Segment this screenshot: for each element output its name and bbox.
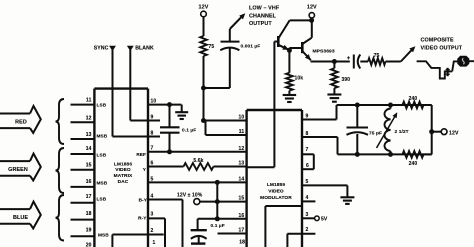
brace GREEN group — [56, 148, 65, 193]
svg-text:COMPOSITE: COMPOSITE — [421, 38, 455, 44]
wire osc down — [203, 88, 205, 121]
label LOW-VHF CHANNEL OUTPUT — [249, 6, 280, 28]
icon video waveform — [417, 57, 474, 79]
U1 label LM1886 — [114, 161, 133, 185]
svg-text:10: 10 — [151, 98, 157, 104]
svg-text:GREEN: GREEN — [8, 167, 28, 173]
U2 pin 10 label — [239, 115, 245, 121]
wire arrow composite out — [401, 46, 416, 61]
svg-text:LSB: LSB — [97, 153, 107, 158]
svg-text:R-Y: R-Y — [138, 215, 147, 220]
ground pin 5 — [340, 197, 354, 204]
svg-text:12V: 12V — [307, 5, 317, 11]
node junction 390 — [332, 59, 337, 64]
svg-text:VIDEO: VIDEO — [268, 189, 284, 195]
svg-text:3: 3 — [306, 212, 309, 218]
svg-text:5: 5 — [306, 179, 309, 185]
svg-text:MSB: MSB — [97, 133, 108, 138]
op-amp U1 LM1886 box — [94, 89, 148, 247]
wire 240bot right — [424, 153, 432, 155]
wire pin5 down — [346, 185, 348, 196]
ground C4 — [191, 242, 205, 244]
svg-text:1: 1 — [153, 240, 156, 246]
brace BLUE group — [56, 195, 65, 241]
wire Q2 emitter output — [311, 61, 350, 63]
svg-text:DAC: DAC — [118, 179, 129, 185]
svg-text:9: 9 — [151, 114, 154, 120]
U2 pin 12 label — [239, 146, 245, 152]
svg-text:MSB: MSB — [98, 233, 109, 238]
wire input pin 19 — [71, 227, 95, 236]
U2 pin 15 label — [239, 196, 245, 202]
node junction U2 pin10 — [201, 118, 206, 123]
svg-text:8: 8 — [306, 131, 309, 137]
svg-text:240: 240 — [409, 96, 418, 102]
U2 pin 17 label — [239, 228, 245, 234]
U2 pin 14 label — [239, 176, 245, 182]
ground pin 10 — [175, 105, 188, 119]
U1 pin labels LSB/MSB left — [97, 102, 110, 237]
svg-text:BLANK: BLANK — [135, 45, 154, 51]
svg-text:11: 11 — [86, 98, 92, 104]
capacitor C2 0.001uF — [220, 29, 260, 88]
wire U2 pin 4 stub — [302, 195, 315, 201]
svg-text:75: 75 — [209, 44, 215, 50]
svg-text:16: 16 — [86, 179, 92, 185]
wire pin 10 to ground — [148, 98, 182, 104]
resistor R4 390 — [331, 68, 350, 88]
wire pin8 down — [337, 137, 339, 154]
wire 12V vertical — [216, 182, 218, 218]
svg-text:2: 2 — [306, 227, 309, 233]
svg-text:2 1/2T: 2 1/2T — [395, 129, 409, 135]
resistor R7 240 bottom — [403, 151, 424, 167]
wire tank top — [337, 104, 432, 106]
svg-text:3: 3 — [151, 211, 154, 217]
wire junction to cap — [204, 87, 230, 89]
capacitor C4 0.1uF — [191, 219, 225, 244]
svg-text:12V: 12V — [199, 5, 209, 11]
svg-text:10: 10 — [239, 115, 245, 121]
wire U1 pin5 to U2 pin14 — [148, 176, 247, 182]
svg-text:13: 13 — [86, 132, 92, 138]
node junction pin15 — [215, 199, 220, 204]
U2 pin 11 label — [239, 129, 245, 135]
node BLANK input — [127, 45, 154, 120]
wire R-Y down — [164, 218, 166, 247]
wire to U2 pin 11 — [206, 134, 247, 136]
svg-text:OUTPUT: OUTPUT — [249, 21, 272, 27]
wire U2 pin 8 — [302, 131, 338, 137]
svg-text:LM1886: LM1886 — [114, 161, 132, 167]
input arrow RED — [0, 106, 41, 133]
wire T1 base vertical — [273, 42, 275, 111]
svg-text:12: 12 — [239, 146, 245, 152]
wire U2 pin 16 — [198, 218, 247, 220]
svg-text:B-Y: B-Y — [139, 197, 148, 202]
wire emitter to 10k — [288, 50, 290, 73]
wire pin 2 down left — [111, 235, 113, 247]
wire input pin 13 — [71, 132, 95, 139]
op-amp U2 LM1889 box — [247, 110, 302, 247]
svg-text:+: + — [347, 56, 351, 62]
svg-text:10k: 10k — [295, 76, 304, 82]
inductor L1 2 1/2T — [377, 105, 409, 154]
svg-text:75: 75 — [374, 53, 380, 59]
resistor R6 240 top — [403, 96, 424, 108]
svg-text:REF: REF — [136, 152, 146, 157]
wire input pin 18 — [71, 211, 95, 220]
U2 pin 18 label — [239, 240, 245, 246]
svg-text:BLUE: BLUE — [13, 215, 28, 221]
wire U2 pin 9 — [302, 113, 337, 119]
transistor Q1 — [274, 20, 311, 49]
node junction cap top — [355, 103, 360, 108]
wire U2 pin 17 stub — [218, 233, 247, 235]
svg-text:RED: RED — [15, 120, 27, 126]
wire U2 pin 2 interior down — [286, 234, 288, 247]
capacitor C1 0.1uF REF bypass — [160, 105, 196, 152]
resistor R1 75 — [200, 36, 214, 56]
svg-text:11: 11 — [239, 129, 245, 135]
svg-text:0.1 µF: 0.1 µF — [211, 223, 225, 229]
svg-text:LSB: LSB — [97, 197, 107, 202]
wire U2 interior down — [264, 206, 266, 247]
node 12V right terminal — [432, 129, 459, 137]
svg-text:12V ± 10%: 12V ± 10% — [177, 193, 203, 199]
svg-text:0.1 µF: 0.1 µF — [182, 128, 196, 134]
resistor R5 75 output — [368, 53, 386, 65]
ground 10k — [283, 91, 297, 102]
resistor R2 5.6k — [184, 158, 214, 170]
svg-text:20: 20 — [86, 242, 92, 247]
node junction pin7/cap — [167, 149, 172, 154]
node junction pin16 — [215, 216, 220, 221]
svg-text:7: 7 — [306, 147, 309, 153]
wire input pin 17 — [71, 194, 95, 203]
transistor Q2 MPS3693 — [289, 38, 334, 61]
svg-text:12: 12 — [86, 115, 92, 121]
wire to U2 pin 10 — [204, 120, 247, 122]
wire U2 pin 2 stub — [287, 227, 315, 234]
wire pin 2 — [112, 228, 163, 235]
svg-text:MODULATOR: MODULATOR — [260, 195, 292, 201]
capacitor C5 75pF — [347, 105, 383, 154]
wire pin 3 R-Y — [148, 211, 165, 218]
node 12V supply left — [199, 5, 209, 36]
wire input pin 15 — [71, 162, 95, 169]
svg-text:VIDEO: VIDEO — [115, 167, 131, 173]
wire B-Y down — [182, 200, 184, 247]
svg-text:SYNC: SYNC — [94, 45, 109, 51]
resistor R3 10k — [286, 73, 303, 91]
wire 75 down — [203, 56, 205, 88]
svg-text:7: 7 — [151, 146, 154, 152]
svg-text:CHANNEL: CHANNEL — [249, 13, 277, 19]
U1 pin 1 label — [153, 240, 156, 246]
node junction tank right — [429, 129, 434, 134]
wire pin 8 stub — [148, 130, 160, 136]
svg-text:13: 13 — [239, 161, 245, 167]
node junction coil top — [388, 103, 393, 108]
svg-text:VIDEO OUTPUT: VIDEO OUTPUT — [421, 46, 463, 52]
svg-text:19: 19 — [86, 227, 92, 233]
wire Y line pin6 — [148, 160, 184, 166]
wire 390 top — [333, 62, 335, 69]
svg-text:4: 4 — [306, 195, 309, 201]
svg-text:LOW – VHF: LOW – VHF — [249, 6, 280, 12]
svg-text:6: 6 — [151, 160, 154, 166]
node junction cap bottom — [355, 152, 360, 157]
svg-text:18: 18 — [239, 240, 245, 246]
svg-text:12V: 12V — [449, 130, 459, 136]
wire pin 4 B-Y — [148, 193, 183, 199]
wire pin11 tie — [205, 121, 207, 136]
svg-text:MSB: MSB — [97, 180, 108, 185]
wire input pin 11 — [71, 98, 95, 105]
svg-text:2: 2 — [151, 228, 154, 234]
svg-text:17: 17 — [86, 194, 92, 200]
svg-text:15: 15 — [86, 162, 92, 168]
svg-text:MPS3693: MPS3693 — [313, 48, 335, 54]
svg-text:14: 14 — [86, 146, 92, 152]
label COMPOSITE VIDEO OUTPUT — [421, 38, 463, 52]
wire after 75 — [386, 61, 401, 63]
svg-text:75 pF: 75 pF — [369, 130, 382, 136]
capacitor C3 electrolytic — [347, 55, 368, 69]
svg-text:8: 8 — [151, 130, 154, 136]
svg-text:5V: 5V — [321, 216, 328, 222]
svg-text:14: 14 — [239, 176, 245, 182]
node junction coil bottom — [388, 152, 393, 157]
node junction 12V collectors — [309, 18, 314, 23]
input arrow GREEN — [0, 154, 41, 181]
svg-text:18: 18 — [86, 211, 92, 217]
wire U2 pins 7-6 loop — [302, 147, 314, 169]
node 12V 10% terminal — [177, 193, 217, 205]
wire pin 9 stub — [148, 114, 160, 120]
wire tank right vertical — [431, 105, 433, 154]
U1 pin labels right names — [136, 152, 147, 221]
svg-text:0.001 µF: 0.001 µF — [241, 43, 261, 49]
wire pin9 up — [336, 105, 338, 120]
wire U2 pin 5 — [302, 179, 347, 185]
node junction pin10/cap — [167, 102, 172, 107]
U1 pin 20 label — [86, 242, 92, 247]
svg-text:MATRIX: MATRIX — [114, 173, 133, 179]
U2 label LM1889 — [260, 182, 292, 201]
wire input pin 14 — [71, 146, 95, 154]
wire arrow LOW-VHF out — [230, 13, 246, 29]
wire 5.6k to U2 pin13 — [214, 166, 247, 168]
wire SYNC to pin 8 — [113, 136, 149, 138]
input arrow BLUE — [0, 202, 41, 229]
svg-text:240: 240 — [409, 161, 418, 167]
wire input pin 12 — [71, 115, 95, 122]
U2 pin 16 label — [239, 213, 245, 219]
svg-text:5: 5 — [151, 176, 154, 182]
wire input pin 16 — [71, 179, 95, 187]
svg-text:6: 6 — [306, 163, 309, 169]
node SYNC input — [94, 45, 116, 136]
wire U2 pin 15 — [217, 201, 246, 203]
node junction 12V/pin14 — [215, 180, 220, 185]
node 5V terminal — [302, 212, 328, 222]
svg-text:390: 390 — [342, 77, 351, 83]
wire tank bottom — [338, 153, 432, 155]
svg-text:LSB: LSB — [97, 102, 107, 107]
svg-text:4: 4 — [151, 193, 154, 199]
wire 240top right — [424, 104, 432, 106]
wire U2 interior pin 4 branch — [265, 205, 302, 207]
U2 pin 13 label — [239, 161, 245, 167]
wire U2 interior to Q1 base — [247, 110, 275, 167]
svg-text:LM1889: LM1889 — [267, 182, 285, 188]
wire U1 pin7 REF to U2 pin12 — [148, 146, 247, 152]
ground 390 — [327, 88, 341, 102]
node junction osc — [201, 86, 206, 91]
wire BLANK to pin 9 — [130, 120, 148, 122]
node 12V supply right — [307, 5, 317, 38]
svg-text:9: 9 — [306, 113, 309, 119]
svg-text:5.6k: 5.6k — [193, 158, 203, 164]
node junction Q1 emitter — [287, 48, 292, 53]
brace RED group — [56, 99, 65, 144]
